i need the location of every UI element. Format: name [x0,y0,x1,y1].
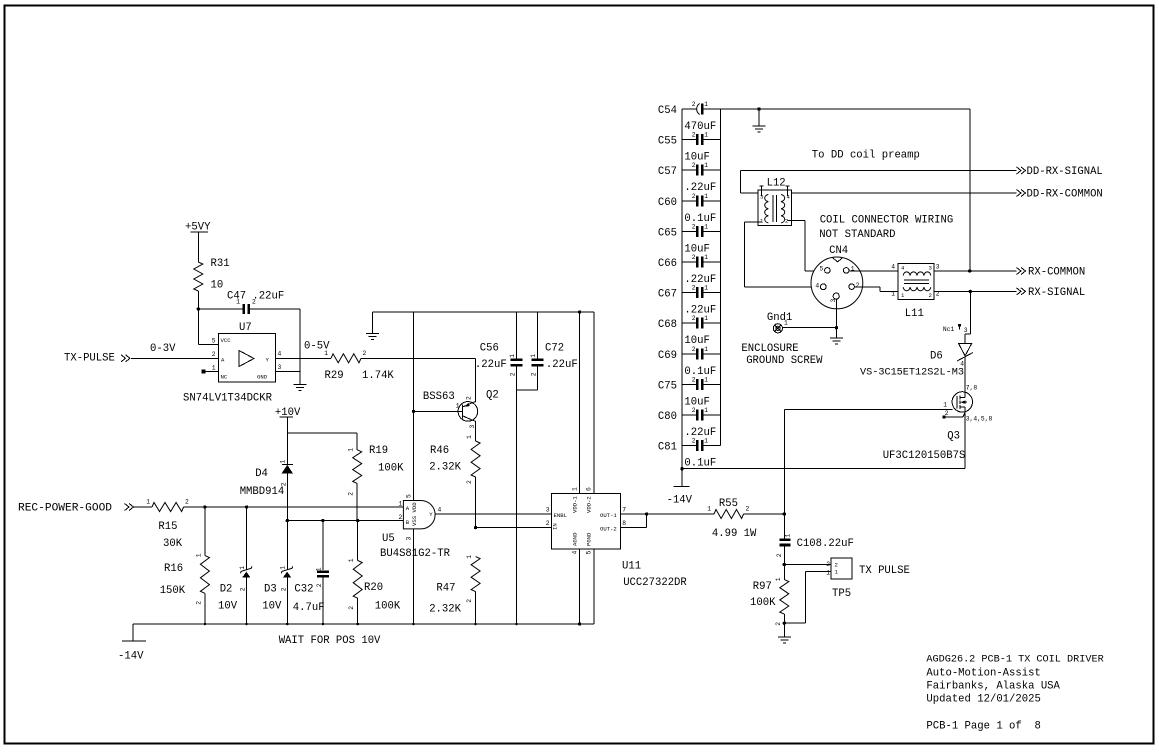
port DD-RX-COMMON [1017,190,1022,197]
wire RX-COMMON [934,270,1017,272]
node RX-SIGNAL join [969,290,972,293]
svg-text:1: 1 [348,558,355,562]
svg-text:WAIT FOR POS 10V: WAIT FOR POS 10V [279,635,381,647]
svg-text:Y: Y [266,357,270,364]
wire bottom rail [133,623,594,625]
capacitor C56 [515,312,517,359]
svg-text:Fairbanks, Alaska USA: Fairbanks, Alaska USA [926,681,1060,693]
wire D3 to rail [286,577,288,624]
svg-text:1.74K: 1.74K [362,370,394,382]
transistor Q2 BSS63 [458,402,478,422]
svg-text:1: 1 [704,162,708,169]
svg-text:VDD-2: VDD-2 [586,496,593,513]
svg-text:4.99 1W: 4.99 1W [712,528,757,540]
wire TX-PULSE to U7 [131,357,218,359]
svg-text:BU4S81G2-TR: BU4S81G2-TR [380,548,451,560]
wire R47 to rail [475,592,477,624]
capacitor C54 [682,108,696,110]
svg-text:2: 2 [363,350,367,357]
svg-text:UF3C120150B7S: UF3C120150B7S [883,450,966,462]
svg-text:.22uF: .22uF [475,359,507,371]
wire R31 to U7 VCC [197,291,199,345]
svg-text:R31: R31 [211,258,230,270]
svg-text:3: 3 [936,264,940,271]
svg-text:2: 2 [776,553,783,557]
node R16 tap [203,505,206,508]
svg-text:2: 2 [692,223,696,230]
svg-text:Q3: Q3 [947,431,960,443]
wire U11 out2 [620,527,646,529]
svg-text:D3: D3 [264,584,277,596]
wire CN4 pin2 to L11 [854,286,879,288]
svg-text:2: 2 [775,622,782,626]
power -14V cap bank [674,486,690,488]
resistor R97 [783,565,785,580]
resistor R46 [471,441,480,477]
svg-text:REC-POWER-GOOD: REC-POWER-GOOD [18,503,112,515]
svg-text:1: 1 [704,438,708,445]
svg-text:1: 1 [784,320,788,327]
svg-text:U5: U5 [382,533,395,545]
svg-text:C54: C54 [658,105,677,117]
svg-text:3: 3 [278,364,282,371]
wire out to R55 [647,513,714,515]
svg-text:100K: 100K [378,463,404,475]
svg-text:1: 1 [530,354,537,358]
node rail R20 [356,623,359,626]
svg-text:2: 2 [692,193,696,200]
node rail C56b [515,623,518,626]
wire D2 to rail [246,577,248,624]
svg-text:3: 3 [964,327,968,334]
svg-text:1: 1 [704,285,708,292]
wire input to R15 [134,506,152,508]
node gnd1 join [835,326,838,329]
pin 1 U7 [205,370,218,372]
svg-text:1: 1 [146,499,150,506]
resistor R19 [353,450,362,484]
svg-text:1: 1 [509,354,516,358]
svg-text:RX-COMMON: RX-COMMON [1028,267,1085,279]
wire cap bank left rail [681,109,683,487]
svg-text:1: 1 [835,569,839,576]
wire U5 output [435,513,551,515]
node rail R47 [474,623,477,626]
svg-text:1: 1 [891,291,895,298]
wire C54 rail down [969,109,971,271]
node rail D2 [245,623,248,626]
diode D3 zener 10V [286,521,288,570]
wire RX-SIGNAL [934,290,1017,292]
resistor R16 [204,507,206,556]
svg-text:C47 .22uF: C47 .22uF [227,291,284,303]
svg-text:PCB-1 Page 1 of 8: PCB-1 Page 1 of 8 [926,721,1040,733]
svg-text:RX-SIGNAL: RX-SIGNAL [1028,287,1085,299]
capacitor C108 [783,514,785,539]
svg-text:A: A [221,357,225,364]
svg-text:3: 3 [469,425,476,429]
svg-text:C60: C60 [658,197,677,209]
wire R55 to gate node [744,513,785,515]
ic U11 UCC27322DR [551,493,620,549]
svg-text:DD-RX-COMMON: DD-RX-COMMON [1027,189,1103,201]
wire -14V to Q3 source [682,468,965,470]
wire Q3 source down [964,412,966,469]
svg-text:Auto-Motion-Assist: Auto-Motion-Assist [926,668,1040,680]
node TP5 tap [783,563,786,566]
svg-text:TX-PULSE: TX-PULSE [64,353,115,365]
svg-text:2: 2 [399,514,403,521]
wire Q2 base [414,410,463,412]
svg-text:3: 3 [546,507,550,514]
connector CN4 [811,257,863,309]
wire CN4 pin3 down [835,299,837,338]
wire U5 pin3 to rail [412,529,414,624]
wire R29 to Q2 node [361,357,475,359]
svg-text:2: 2 [316,583,323,587]
transformer L12 [758,190,792,225]
svg-text:1: 1 [785,534,792,538]
capacitor C47 [198,308,243,310]
svg-text:C69: C69 [658,350,677,362]
ground cap bank top [758,109,760,126]
resistor R31 [194,262,203,291]
svg-text:Gnd1: Gnd1 [767,312,792,324]
port RX-COMMON [1017,268,1022,275]
svg-text:1: 1 [239,566,246,570]
svg-text:Nc1: Nc1 [943,326,955,333]
svg-text:470uF: 470uF [684,121,716,133]
svg-text:2: 2 [212,351,216,358]
wire Q2 collector up [474,401,475,403]
svg-text:C32: C32 [294,584,313,596]
svg-text:1: 1 [196,553,203,557]
wire L12 pin1 loop [745,221,762,223]
svg-text:10V: 10V [218,601,238,613]
svg-text:2: 2 [692,254,696,261]
svg-text:OUT-1: OUT-1 [600,512,617,519]
svg-text:2: 2 [196,601,203,605]
svg-text:2: 2 [466,599,473,603]
svg-text:GND: GND [257,374,268,381]
svg-text:1: 1 [466,555,473,559]
node pinB R19 [356,519,359,522]
wire U11 pgnd to rail [593,549,595,624]
svg-text:R19: R19 [369,445,388,457]
svg-text:2: 2 [531,372,538,376]
capacitor C69 [682,353,696,355]
svg-text:7,8: 7,8 [966,385,978,392]
svg-text:MMBD914: MMBD914 [240,486,285,498]
wire DD-RX-COMMON [792,192,1017,194]
svg-text:AGND: AGND [572,532,579,546]
svg-text:4: 4 [891,264,895,271]
svg-text:1: 1 [399,500,403,507]
capacitor C60 [682,200,696,202]
svg-text:.22uF: .22uF [684,427,716,439]
svg-text:7: 7 [622,507,626,514]
svg-text:2: 2 [692,132,696,139]
svg-text:R46: R46 [430,445,449,457]
svg-text:Y: Y [429,511,433,518]
ground R97 [778,636,791,638]
svg-text:C57: C57 [658,166,677,178]
svg-text:C80: C80 [658,411,677,423]
resistor R29 [331,354,361,363]
svg-text:2: 2 [280,587,287,591]
svg-text:C75: C75 [658,380,677,392]
svg-text:TP5: TP5 [832,588,851,600]
svg-text:2: 2 [692,438,696,445]
svg-text:1: 1 [775,577,782,581]
svg-text:D2: D2 [220,584,233,596]
svg-text:10V: 10V [262,601,282,613]
node rail U5gnd [412,623,415,626]
svg-text:2: 2 [835,562,838,569]
svg-text:5: 5 [212,338,216,345]
svg-text:2: 2 [240,587,247,591]
node rail C32 [322,623,325,626]
svg-text:1: 1 [704,254,708,261]
svg-text:0-3V: 0-3V [150,343,176,355]
wire R16 to rail [204,593,206,624]
svg-text:2: 2 [546,520,550,527]
svg-text:NC: NC [221,374,228,381]
capacitor C81 [682,445,696,447]
svg-text:VSS: VSS [411,515,418,526]
svg-text:2: 2 [856,282,860,289]
wire TP5 pin1 loop [806,570,831,572]
svg-text:2: 2 [826,561,830,568]
svg-text:ENBL: ENBL [554,512,567,519]
node gate drive [783,512,786,515]
resistor R20 [357,521,359,561]
svg-text:C72: C72 [545,343,564,355]
svg-text:1: 1 [466,435,473,439]
svg-text:2.32K: 2.32K [429,462,461,474]
ground CN4 [830,337,843,339]
node out join [645,512,648,515]
node pinB C32 [321,519,324,522]
svg-text:1: 1 [704,376,708,383]
node pinB D4 [286,519,289,522]
transformer L11 [898,264,934,300]
wire R19 to node [356,483,358,520]
svg-text:VCC: VCC [221,337,232,344]
svg-text:1: 1 [760,218,764,225]
wire CN4 pin1 to L11 [849,270,898,272]
port DD-RX-SIGNAL [1017,167,1022,174]
svg-text:4: 4 [901,265,905,272]
node D2 tap [245,505,248,508]
svg-text:C55: C55 [658,136,677,148]
resistor R47 [471,557,480,592]
svg-text:C81: C81 [658,442,677,454]
svg-text:C65: C65 [658,227,677,239]
svg-text:1: 1 [280,566,287,570]
capacitor C66 [682,261,696,263]
svg-text:8: 8 [622,520,626,527]
wire R97 to gnd [783,614,785,637]
node rail D3 [286,623,289,626]
node R97 TP5 [783,622,786,625]
svg-text:2: 2 [466,396,473,400]
svg-text:.22uF: .22uF [684,305,716,317]
svg-text:4: 4 [278,351,282,358]
capacitor C57 [682,169,696,171]
node R46 R47 [474,526,477,529]
node rail R16 [204,623,207,626]
wire R46 node to U11 [476,527,552,529]
svg-text:C67: C67 [658,289,677,301]
op-amp U7 buffer [218,334,275,383]
svg-text:1: 1 [826,570,830,577]
resistor R55 [714,510,744,519]
svg-text:-14V: -14V [118,651,144,663]
capacitor C72 [536,312,538,359]
svg-text:1: 1 [901,292,905,299]
svg-text:AGDG26.2 PCB-1 TX COIL DRIVER: AGDG26.2 PCB-1 TX COIL DRIVER [926,655,1103,666]
wire cap bank right rail [720,109,722,446]
svg-text:1: 1 [704,223,708,230]
svg-text:4: 4 [787,194,791,201]
svg-text:VDD: VDD [411,502,418,513]
svg-text:30K: 30K [163,538,183,550]
svg-text:3: 3 [406,537,413,541]
pin 4 U7 [275,357,331,359]
svg-text:10: 10 [211,280,224,292]
svg-text:2: 2 [348,606,355,610]
ground top rail [371,312,373,334]
svg-text:.22uF: .22uF [684,274,716,286]
svg-text:BSS63: BSS63 [423,391,455,403]
svg-text:2: 2 [929,292,932,299]
svg-text:5: 5 [406,494,413,498]
svg-text:1: 1 [348,448,355,452]
svg-text:R20: R20 [364,582,383,594]
svg-text:Q2: Q2 [486,390,499,402]
svg-text:100K: 100K [750,597,776,609]
svg-text:L12: L12 [767,178,786,190]
svg-text:1: 1 [704,407,708,414]
svg-text:2: 2 [746,506,750,513]
svg-text:-14V: -14V [667,495,693,507]
capacitor C32 [322,521,324,571]
diode D6 [959,343,972,355]
svg-text:C56: C56 [480,343,499,355]
svg-text:.22uF: .22uF [684,182,716,194]
wire pinB net [287,520,403,522]
svg-text:D4: D4 [255,468,268,480]
svg-text:1: 1 [704,315,708,322]
svg-text:0.1uF: 0.1uF [684,458,716,470]
wire C47 to GND pin [299,309,301,371]
svg-text:1: 1 [212,365,216,372]
node RX-COMMON join [968,269,971,272]
node rail U11 vdd1 [578,310,581,313]
svg-text:B: B [406,519,410,526]
svg-text:CN4: CN4 [829,245,848,257]
wire U11 out1 [620,513,646,515]
wire D4 to node [286,474,288,521]
svg-text:C66: C66 [658,258,677,270]
ground below U7 [299,371,301,384]
node top gnd tap [757,107,760,110]
svg-text:U7: U7 [239,322,252,334]
capacitor C68 [682,322,696,324]
power -14V left [132,624,134,641]
wire to TP5 pin2 [784,564,831,566]
wire DD-RX-SIGNAL [740,170,1016,172]
svg-text:2: 2 [692,162,696,169]
svg-text:1: 1 [456,403,460,410]
svg-text:U11: U11 [622,561,641,573]
svg-text:1: 1 [943,402,947,409]
capacitor C55 [682,139,696,141]
wire U11 agnd to rail [579,549,581,624]
svg-text:.22uF: .22uF [546,359,578,371]
wire D6 to Q3 [964,356,966,392]
svg-text:1: 1 [704,132,708,139]
svg-text:R29: R29 [325,370,344,382]
svg-text:6: 6 [586,487,593,491]
diode D4 MMBD914 [286,433,288,465]
svg-text:A: A [406,505,410,512]
svg-text:1: 1 [572,487,579,491]
svg-text:3,4,5,8: 3,4,5,8 [966,416,993,423]
svg-text:To DD coil preamp: To DD coil preamp [812,150,920,162]
svg-text:0.1uF: 0.1uF [684,366,716,378]
wire Q3 gate [783,409,785,514]
wire cap top to right [721,108,970,110]
svg-text:COIL CONNECTOR WIRING: COIL CONNECTOR WIRING [820,215,954,227]
svg-text:3: 3 [929,265,932,272]
svg-text:C108.22uF: C108.22uF [797,538,854,550]
svg-text:NOT STANDARD: NOT STANDARD [819,229,895,241]
wire RX-SIGNAL to D6 [969,291,971,334]
capacitor C65 [682,230,696,232]
svg-text:1: 1 [707,506,711,513]
svg-text:2: 2 [692,285,696,292]
node Q2 base [412,410,415,413]
svg-text:C68: C68 [658,319,677,331]
wire +10V rail [287,432,357,434]
port RX-SIGNAL [1017,288,1022,295]
svg-text:R97: R97 [753,581,772,593]
svg-text:R55: R55 [719,498,738,510]
svg-text:0.1uF: 0.1uF [684,213,716,225]
svg-text:3: 3 [760,194,763,201]
svg-text:2: 2 [692,346,696,353]
svg-text:1: 1 [324,350,328,357]
nand gate U5 [403,501,435,529]
diode D2 zener 10V [246,507,248,570]
svg-text:2: 2 [692,376,696,383]
svg-text:4.7uF: 4.7uF [293,602,325,614]
svg-text:Updated 12/01/2025: Updated 12/01/2025 [926,694,1040,706]
svg-text:4: 4 [438,507,442,514]
svg-text:5: 5 [820,266,824,273]
resistor R15 [152,503,184,512]
svg-text:D6: D6 [930,351,943,363]
pin 3 U7 [275,370,300,372]
svg-text:R16: R16 [164,563,183,575]
testpoint TP5 [831,558,852,579]
svg-text:PGND: PGND [586,532,593,546]
svg-text:R47: R47 [436,583,455,595]
svg-text:1: 1 [280,460,287,464]
wire Q2 emitter down [474,420,476,422]
